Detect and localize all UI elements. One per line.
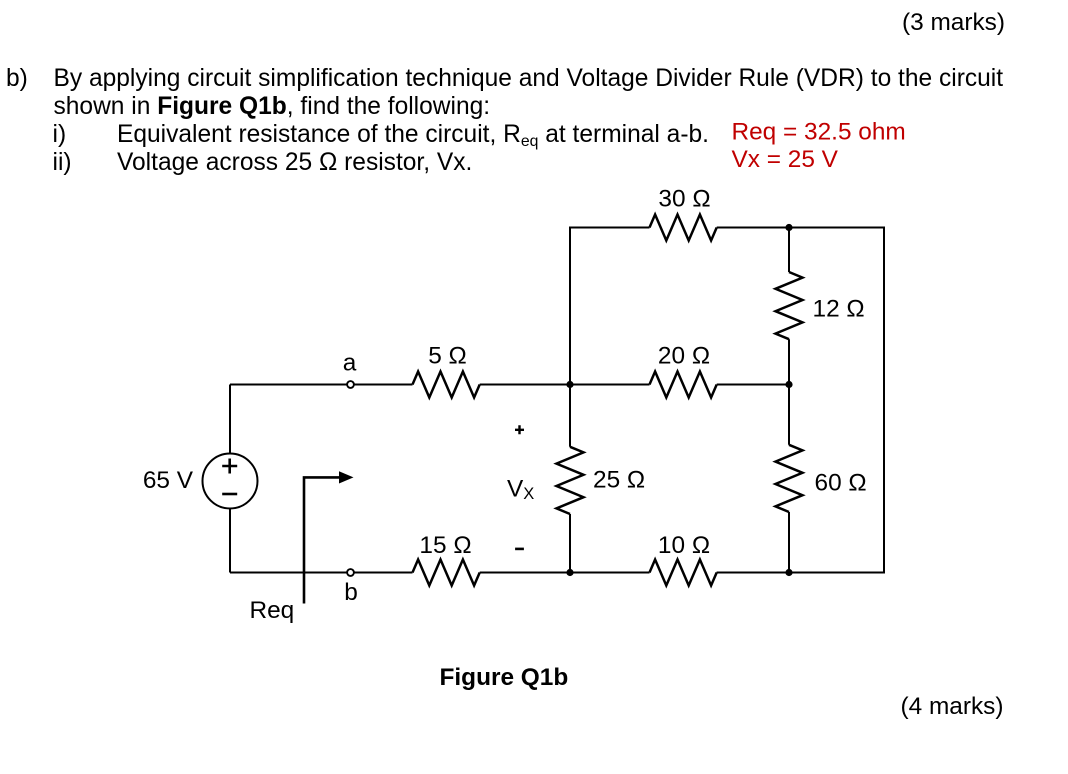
svg-text:20 Ω: 20 Ω: [658, 343, 710, 370]
voltage source 65V: [203, 454, 258, 509]
svg-text:VX: VX: [507, 476, 534, 504]
wire: right vertical 60ohm to bottom node: [788, 512, 790, 573]
svg-text:Req = 32.5 ohm: Req = 32.5 ohm: [732, 119, 906, 146]
wire: right vertical from top node: [788, 228, 790, 273]
svg-text:i): i): [53, 121, 67, 148]
wire: center vertical 25ohm to bottom: [569, 514, 571, 573]
wire: right vertical 12ohm to mid node: [788, 339, 790, 384]
wire: center vertical top to mid: [569, 228, 571, 385]
resistor R 5ohm: [413, 372, 480, 398]
source plus sign: [222, 459, 237, 474]
svg-text:b): b): [6, 65, 28, 92]
svg-text:12 Ω: 12 Ω: [813, 296, 865, 323]
resistor R 10ohm: [650, 560, 717, 586]
wire: center vertical mid to 25ohm: [569, 385, 571, 447]
svg-text:ii): ii): [53, 149, 72, 176]
svg-text:By applying circuit simplifica: By applying circuit simplification techn…: [54, 65, 1004, 92]
terminal b: [347, 569, 354, 576]
svg-text:65 V: 65 V: [143, 467, 194, 494]
svg-text:Vx = 25 V: Vx = 25 V: [732, 146, 839, 173]
wire: middle wire 5ohm to 20ohm: [480, 384, 650, 386]
svg-text:Equivalent resistance of the c: Equivalent resistance of the circuit, Re…: [117, 121, 709, 150]
terminal a: [347, 381, 354, 388]
svg-text:25 Ω: 25 Ω: [593, 467, 645, 494]
resistor R 12ohm: [776, 272, 803, 339]
resistor R 15ohm: [413, 560, 480, 586]
resistor R 30ohm: [650, 215, 717, 241]
resistor R 25ohm: [557, 447, 584, 514]
svg-text:Req: Req: [250, 597, 295, 624]
wire: source top lead: [229, 385, 231, 454]
svg-text:b: b: [344, 579, 358, 606]
svg-text:shown in Figure Q1b, find the: shown in Figure Q1b, find the following:: [54, 93, 491, 120]
svg-text:10 Ω: 10 Ω: [658, 532, 710, 559]
wire: bottom wire from source to 15ohm: [230, 572, 413, 574]
wire: bottom wire 10ohm to right nodes: [717, 572, 789, 574]
svg-text:Voltage across 25 Ω resistor,: Voltage across 25 Ω resistor, Vx.: [117, 149, 472, 176]
wire: right vertical mid node to 60ohm: [788, 385, 790, 445]
question text: [6, 65, 1003, 176]
node junction bottom-right: [785, 569, 792, 576]
resistor R 60ohm: [776, 445, 803, 512]
svg-text:Figure Q1b: Figure Q1b: [440, 664, 569, 691]
wire: middle wire from source to node a: [230, 384, 413, 386]
wire: bottom wire 15ohm to 10ohm: [480, 572, 650, 574]
source minus sign: [222, 493, 237, 496]
node junction bottom-center: [566, 569, 573, 576]
wire: top branch horizontal: [570, 228, 650, 385]
Vx plus sign: [515, 425, 524, 434]
node junction mid-center: [566, 381, 573, 388]
svg-text:a: a: [343, 350, 357, 377]
svg-text:5 Ω: 5 Ω: [428, 343, 467, 370]
wire: top branch to outer corner: [717, 228, 884, 573]
Req measurement arrow: [304, 477, 341, 603]
node junction top-right: [785, 224, 792, 231]
svg-text:(4 marks): (4 marks): [901, 693, 1004, 720]
resistor R 20ohm: [650, 372, 717, 398]
svg-text:15 Ω: 15 Ω: [419, 532, 471, 559]
node junction mid-right: [785, 381, 792, 388]
svg-text:60 Ω: 60 Ω: [815, 470, 867, 497]
wire: source bottom lead: [229, 509, 231, 573]
svg-text:(3 marks): (3 marks): [902, 9, 1005, 36]
svg-text:30 Ω: 30 Ω: [658, 186, 710, 213]
Vx minus sign: [515, 548, 524, 551]
wire: middle wire end at node: [717, 384, 789, 386]
